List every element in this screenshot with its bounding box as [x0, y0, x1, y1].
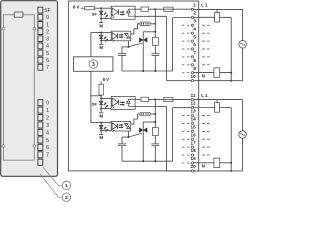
svg-text:4: 4 [46, 44, 49, 50]
svg-text:1: 1 [65, 183, 68, 189]
svg-text:6: 6 [46, 58, 49, 64]
svg-text:7: 7 [46, 65, 49, 71]
svg-text:2: 2 [65, 195, 68, 201]
svg-text:18: 18 [191, 148, 197, 153]
svg-text:3: 3 [193, 18, 196, 23]
svg-text:3: 3 [92, 62, 95, 68]
svg-text:7: 7 [193, 50, 196, 55]
svg-text:2: 2 [46, 29, 49, 35]
svg-text:9: 9 [193, 66, 196, 71]
svg-text:5: 5 [46, 138, 49, 144]
svg-text:4: 4 [193, 26, 196, 31]
svg-text:2: 2 [193, 11, 196, 16]
svg-text:0: 0 [46, 101, 49, 107]
svg-text:0: 0 [46, 15, 49, 21]
svg-text:20: 20 [191, 164, 197, 169]
svg-text:1: 1 [46, 22, 49, 28]
svg-text:6 V: 6 V [73, 5, 80, 10]
svg-text:SF: SF [92, 11, 98, 16]
svg-text:SF: SF [44, 8, 50, 14]
svg-text:M: M [99, 45, 103, 50]
svg-text:M: M [99, 135, 103, 140]
svg-text:6: 6 [193, 42, 196, 47]
svg-text:M: M [99, 114, 103, 119]
svg-text:6 V: 6 V [103, 77, 110, 82]
svg-text:SF: SF [92, 102, 98, 107]
svg-text:3: 3 [46, 123, 49, 129]
svg-text:2: 2 [46, 115, 49, 121]
svg-text:4: 4 [46, 130, 49, 136]
svg-text:17: 17 [191, 140, 197, 145]
svg-text:M: M [99, 23, 103, 28]
svg-text:10: 10 [191, 74, 197, 79]
svg-text:14: 14 [191, 117, 197, 122]
svg-text:N: N [202, 73, 205, 78]
svg-text:8: 8 [193, 58, 196, 63]
svg-text:15: 15 [191, 124, 197, 129]
svg-text:19: 19 [191, 156, 197, 161]
svg-text:5: 5 [46, 51, 49, 57]
svg-text:1: 1 [193, 3, 196, 8]
svg-text:L 1: L 1 [201, 93, 208, 98]
svg-text:1: 1 [46, 108, 49, 114]
svg-text:13: 13 [191, 109, 197, 114]
svg-text:L 1: L 1 [201, 3, 208, 8]
svg-text:3: 3 [46, 37, 49, 43]
svg-text:6: 6 [46, 145, 49, 151]
svg-text:7: 7 [46, 153, 49, 159]
svg-text:16: 16 [191, 132, 197, 137]
svg-text:N: N [202, 164, 205, 169]
svg-text:12: 12 [191, 101, 197, 106]
svg-text:5: 5 [193, 34, 196, 39]
svg-text:11: 11 [191, 93, 196, 98]
